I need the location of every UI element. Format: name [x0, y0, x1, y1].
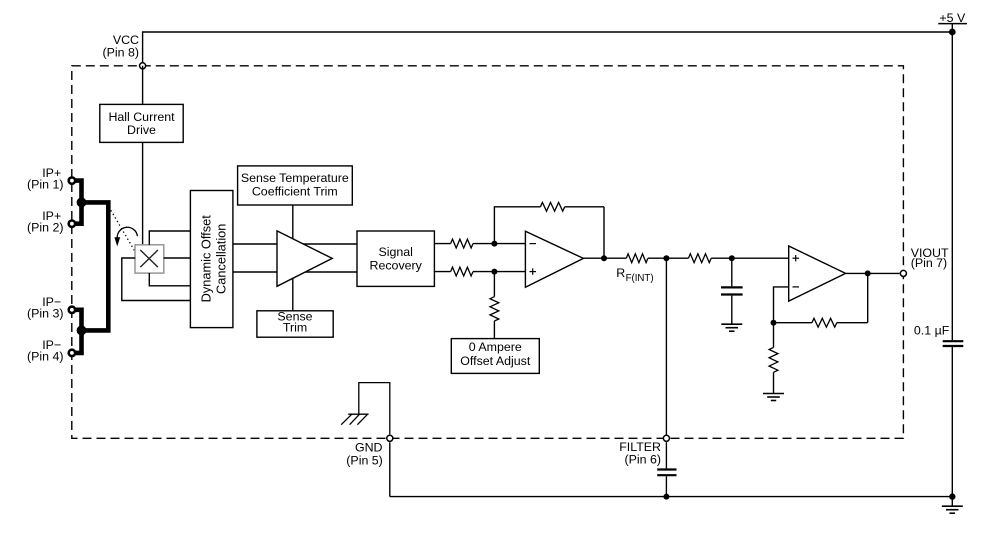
label RF(INT)	[616, 266, 653, 284]
junction +5V rail	[949, 29, 956, 36]
resistor upper input	[451, 239, 473, 248]
+5 V supply symbol	[938, 11, 967, 32]
wire cap bottom	[731, 296, 733, 325]
resistor lower input	[451, 267, 473, 276]
junction A2 output	[601, 255, 607, 261]
junction bottom right	[949, 493, 955, 499]
wire hall left loop	[122, 258, 191, 301]
IC boundary (dashed package outline)	[72, 66, 904, 439]
VCC pin (Pin 8)	[140, 63, 146, 69]
svg-text:Hall Current: Hall Current	[108, 110, 175, 124]
junction A2 minus	[491, 241, 497, 247]
junction buffer output	[865, 270, 871, 276]
resistor RF(INT)	[626, 254, 648, 263]
op-amp A3 (buffer)	[789, 246, 846, 301]
wire VCC to +5V rail	[143, 32, 953, 66]
svg-text:Offset Adjust: Offset Adjust	[460, 354, 531, 368]
feedback wire A2	[494, 207, 604, 259]
label FILTER (Pin 6)	[619, 440, 661, 466]
svg-text:Signal: Signal	[378, 245, 412, 259]
amplifier A1	[277, 231, 332, 286]
junction filter ground	[663, 494, 669, 500]
wire GND down	[389, 442, 391, 496]
resistor 0 ampere	[490, 272, 499, 339]
resistor buffer to ground	[769, 323, 778, 394]
wire hall top	[149, 231, 190, 245]
junction pins 1-2	[77, 198, 87, 208]
wire to A2 plus	[473, 271, 525, 273]
junction buffer cap	[729, 255, 735, 261]
resistor to buffer	[688, 254, 711, 263]
rotation arc arrow	[114, 227, 137, 246]
wire to A2 minus	[473, 243, 525, 245]
junction buffer feedback	[771, 320, 777, 326]
svg-text:(Pin 3): (Pin 3)	[27, 307, 64, 321]
svg-text:(Pin 5): (Pin 5)	[346, 454, 383, 468]
wire filter cap to ground	[665, 476, 667, 496]
svg-text:0.1 µF: 0.1 µF	[914, 324, 950, 338]
wire recovery upper	[434, 243, 450, 245]
wire Hall drive to hall element	[142, 142, 144, 245]
wire recovery lower	[434, 271, 450, 273]
wire VCC pin to Hall drive	[142, 66, 144, 105]
feedback resistor buffer	[812, 318, 837, 327]
feedback resistor A2	[540, 202, 564, 211]
wire RF to filter node	[648, 257, 689, 259]
wire buffer output	[846, 272, 900, 274]
label GND (Pin 5)	[346, 441, 383, 468]
svg-text:(Pin 7): (Pin 7)	[911, 256, 948, 270]
label IP+ (Pin 1)	[27, 166, 64, 192]
svg-text:F(INT): F(INT)	[626, 273, 654, 284]
label 0.1 uF	[914, 324, 950, 338]
IP- pin 3	[69, 307, 75, 313]
0 Ampere Offset Adjust box	[451, 339, 539, 374]
wire to buffer plus	[711, 257, 789, 259]
svg-text:(Pin 2): (Pin 2)	[27, 220, 64, 234]
svg-text:Trim: Trim	[283, 321, 307, 335]
wire trim vertical	[292, 205, 294, 311]
junction A2 plus	[491, 269, 497, 275]
IP+ pin 1	[69, 177, 75, 183]
wire cap top	[731, 258, 733, 286]
Dynamic Offset Cancellation box	[190, 191, 233, 328]
svg-text:R: R	[616, 266, 625, 280]
svg-text:Coefficient Trim: Coefficient Trim	[252, 184, 338, 198]
svg-text:Recovery: Recovery	[370, 258, 423, 272]
filter capacitor	[657, 470, 676, 476]
svg-text:GND: GND	[355, 441, 383, 455]
svg-text:Drive: Drive	[127, 123, 156, 137]
wire amp A1 upper input	[233, 243, 357, 245]
Sense Trim box	[257, 310, 333, 338]
wire filter node down	[665, 258, 667, 438]
Hall Current Drive box	[100, 104, 183, 142]
wire +5V rail down right side	[951, 32, 953, 506]
junction filter node	[663, 255, 669, 261]
op-amp A2	[525, 231, 583, 287]
label IP+ (Pin 2)	[27, 209, 64, 235]
IP- pin 4	[69, 350, 75, 356]
FILTER pin (Pin 6)	[663, 435, 669, 441]
svg-text:(Pin 6): (Pin 6)	[625, 452, 662, 466]
wire hall right	[164, 257, 191, 259]
svg-text:Sense Temperature: Sense Temperature	[241, 171, 349, 185]
wire amp A1 lower input	[233, 271, 357, 273]
svg-text:(Pin 4): (Pin 4)	[27, 350, 64, 364]
Sense Temperature Coefficient Trim box	[238, 166, 353, 205]
wire A2 output	[583, 257, 626, 259]
svg-text:0 Ampere: 0 Ampere	[469, 340, 522, 354]
GND pin (Pin 5)	[387, 435, 393, 441]
ground under buffer resistor	[763, 394, 784, 401]
svg-text:(Pin 1): (Pin 1)	[27, 177, 64, 191]
VCC pin (Pin 8) label	[103, 33, 140, 59]
VIOUT pin (Pin 7)	[900, 270, 906, 276]
label IP&#8722; (Pin 3)	[27, 295, 64, 321]
dotted flux arrow	[109, 207, 136, 252]
ground under capacitor	[721, 324, 742, 331]
Signal Recovery box	[357, 231, 434, 286]
svg-text:+5 V: +5 V	[939, 11, 966, 25]
thick input wire pins 3-4	[75, 310, 82, 353]
wire filter to capacitor	[665, 442, 667, 468]
svg-text:Dynamic Offset: Dynamic Offset	[199, 215, 214, 303]
wire buffer minus	[774, 287, 789, 323]
capacitor 0.1 uF	[943, 341, 964, 346]
ground (bottom right)	[942, 506, 963, 513]
capacitor buffer input	[721, 287, 743, 294]
label VIOUT (Pin 7)	[911, 246, 949, 270]
feedback wire buffer	[774, 273, 868, 322]
thick current loop wire	[82, 202, 109, 330]
label IP&#8722; (Pin 4)	[27, 338, 64, 364]
bottom ground wire	[390, 496, 953, 498]
IP+ pin 2	[69, 221, 75, 227]
svg-text:Cancellation: Cancellation	[214, 224, 229, 294]
wire GND jog to chassis	[359, 383, 390, 435]
thick input wire pins 1-2	[75, 181, 82, 224]
junction pins 3-4	[77, 326, 87, 336]
hall element square	[135, 245, 164, 273]
svg-text:(Pin 8): (Pin 8)	[103, 45, 140, 59]
chassis ground	[341, 414, 368, 425]
wire hall bottom	[149, 273, 190, 286]
